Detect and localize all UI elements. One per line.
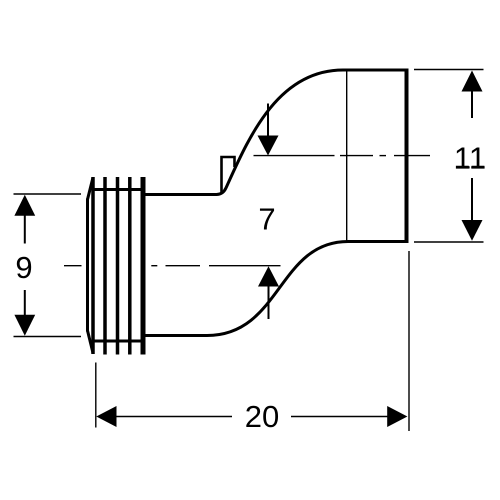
svg-text:7: 7 [258,202,275,237]
dim 9 down arrow [14,315,35,336]
dim 7 down arrow [267,104,269,138]
fin top valley line [93,188,142,191]
dim 20 right arrow [387,406,407,427]
svg-text:9: 9 [15,250,32,285]
dim 20 right extension line [408,251,410,431]
fin 3 [116,177,120,355]
body top line and upper S-curve and outlet top [146,70,409,195]
socket top bevel [88,178,94,200]
dim 11 digit base serifs [456,166,485,169]
socket centerline [64,265,281,267]
fin bottom valley line [93,340,142,343]
dim 7 up arrow [258,266,279,286]
dim 20 left arrow [96,406,116,427]
outlet joint line [346,71,348,241]
dim 9 top extension line [14,193,82,195]
body bottom line and lower S-curve and outlet bottom [146,242,409,336]
socket bottom bevel [88,331,94,354]
svg-text:20: 20 [245,399,279,434]
dim 11 up arrow [462,71,483,92]
dim 9 up arrow [14,195,35,216]
dim 20 left extension line [95,363,97,428]
flange bar [141,177,146,355]
dim 11 down arrow [462,220,483,241]
dim 20 line [115,416,389,418]
fin 4 [128,177,132,355]
dim 11 top extension line [414,69,484,71]
dim 11 bottom extension line [414,241,484,243]
outlet centerline [254,155,431,157]
outlet right edge [405,69,409,244]
fin 2 [103,177,107,355]
svg-text:11: 11 [454,141,486,176]
socket left edge [86,199,89,332]
stop tab [222,157,235,194]
dim 9 bottom extension line [14,336,82,338]
fin 1 [91,177,95,354]
